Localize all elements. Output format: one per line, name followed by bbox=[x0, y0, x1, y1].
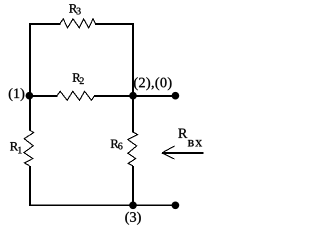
arrow Rvx shaft bbox=[162, 152, 204, 154]
label (3) bbox=[125, 212, 140, 225]
terminal dot of node (3) bbox=[172, 201, 180, 209]
label R3 bbox=[69, 4, 81, 14]
wire stub node 2 to right terminal bbox=[133, 95, 175, 97]
arrow Rvx upper barb bbox=[162, 146, 175, 153]
wire top-left lead (left corner to R3) bbox=[29, 23, 61, 25]
wire left vertical lower (R1 to bottom corner) bbox=[29, 166, 31, 206]
label (2),(0) bbox=[134, 77, 171, 90]
node (3) junction dot bbox=[129, 201, 137, 209]
resistor R6 zigzag bbox=[128, 132, 138, 166]
label R6 bbox=[111, 140, 123, 150]
wire right vertical upper (corner through node 2 to R6) bbox=[132, 23, 134, 133]
terminal dot of node (2),(0) bbox=[172, 92, 180, 100]
label (1) bbox=[9, 88, 24, 101]
label R1 bbox=[10, 142, 22, 153]
label R2 bbox=[73, 73, 84, 84]
wire right vertical lower (R6 to node 3) bbox=[132, 166, 134, 206]
wire left vertical upper (corner through node 1 to R1) bbox=[29, 23, 31, 131]
node (2) junction dot bbox=[129, 92, 137, 100]
wire bottom rail (node 3) bbox=[29, 204, 175, 206]
resistor R1 zigzag bbox=[24, 130, 34, 166]
resistor R2 zigzag bbox=[57, 91, 95, 100]
wire middle right lead (R2 to node 2) bbox=[94, 95, 133, 97]
arrow Rvx lower barb bbox=[162, 153, 175, 159]
wire middle left lead (node 1 to R2) bbox=[29, 95, 57, 97]
node (1) junction dot bbox=[26, 92, 34, 100]
wire top-right lead (R3 to right corner) bbox=[95, 23, 134, 25]
label Rvx (input resistance) bbox=[178, 129, 202, 147]
resistor R3 zigzag bbox=[60, 19, 95, 28]
